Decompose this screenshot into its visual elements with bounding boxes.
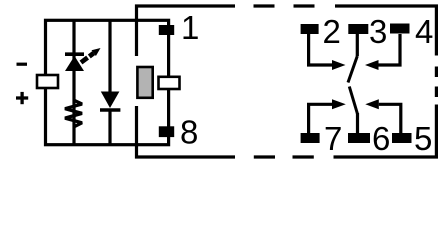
wire diode branch lower (108, 111, 111, 145)
input circuit loop wires (46, 20, 169, 144)
wire right border dash (435, 67, 438, 78)
pin 8 terminal (159, 126, 174, 137)
wire bottom-right corner of case (334, 105, 437, 158)
resistor R3 (coil circuit box) (159, 77, 180, 89)
contact blade upper (pin 3 common) (348, 56, 357, 83)
pin 4 terminal (390, 24, 410, 34)
svg-text:3: 3 (369, 13, 387, 50)
wire LED branch (72, 20, 75, 144)
diode D2 triangle (101, 92, 120, 109)
wire top-left corner of case (137, 6, 236, 56)
pin 7 terminal (301, 133, 320, 143)
relay coil K1 (137, 67, 152, 98)
wire pin 3 stem (356, 34, 359, 56)
wire diode branch upper (108, 20, 111, 92)
wire pin 6 stem (356, 113, 359, 133)
svg-text:7: 7 (324, 120, 342, 157)
pin 2 terminal (301, 24, 319, 34)
pin 1 terminal (159, 25, 174, 35)
svg-text:4: 4 (415, 13, 433, 50)
minus polarity mark (17, 63, 28, 66)
wire bottom-left corner of case (137, 106, 236, 157)
diode D2 cathode bar (100, 108, 120, 112)
wire top border dash (254, 4, 275, 7)
wire pin 4 to NO arrow (379, 34, 401, 65)
wire top border dash (294, 4, 315, 7)
pin 5 terminal (392, 133, 412, 143)
svg-text:2: 2 (323, 13, 341, 50)
svg-text:1: 1 (181, 9, 199, 46)
contact arrow NC upper (332, 60, 346, 70)
contact arrow NO lower (365, 99, 379, 109)
svg-text:6: 6 (372, 120, 390, 157)
resistor R1 (input series resistor box) (37, 75, 58, 88)
LED D1 triangle (65, 56, 84, 71)
relay case outline (dashed package border) (137, 6, 437, 157)
pin 6 terminal (348, 133, 370, 143)
wire pin 7 to NC arrow (309, 104, 333, 133)
LED D1 light arrows (81, 48, 101, 63)
wire pin 2 to NC arrow (309, 34, 333, 65)
contact blade lower (pin 6 common) (349, 87, 357, 115)
wire input loop (46, 20, 169, 144)
contact arrow NO upper (365, 60, 379, 70)
svg-text:5: 5 (414, 120, 432, 157)
resistor R2 (zigzag under LED) (65, 101, 82, 127)
wire bottom border dash (254, 155, 275, 158)
wire bottom border dash (293, 155, 314, 158)
LED D1 cathode bar (65, 52, 84, 56)
plus polarity mark (16, 92, 28, 104)
wire top-right corner of case (335, 6, 436, 56)
wire pin 5 to NO arrow (379, 104, 401, 133)
pin 3 terminal (348, 24, 368, 34)
contact arrow NC lower (332, 99, 346, 109)
svg-text:8: 8 (180, 114, 198, 151)
wire right border dash (435, 87, 438, 98)
